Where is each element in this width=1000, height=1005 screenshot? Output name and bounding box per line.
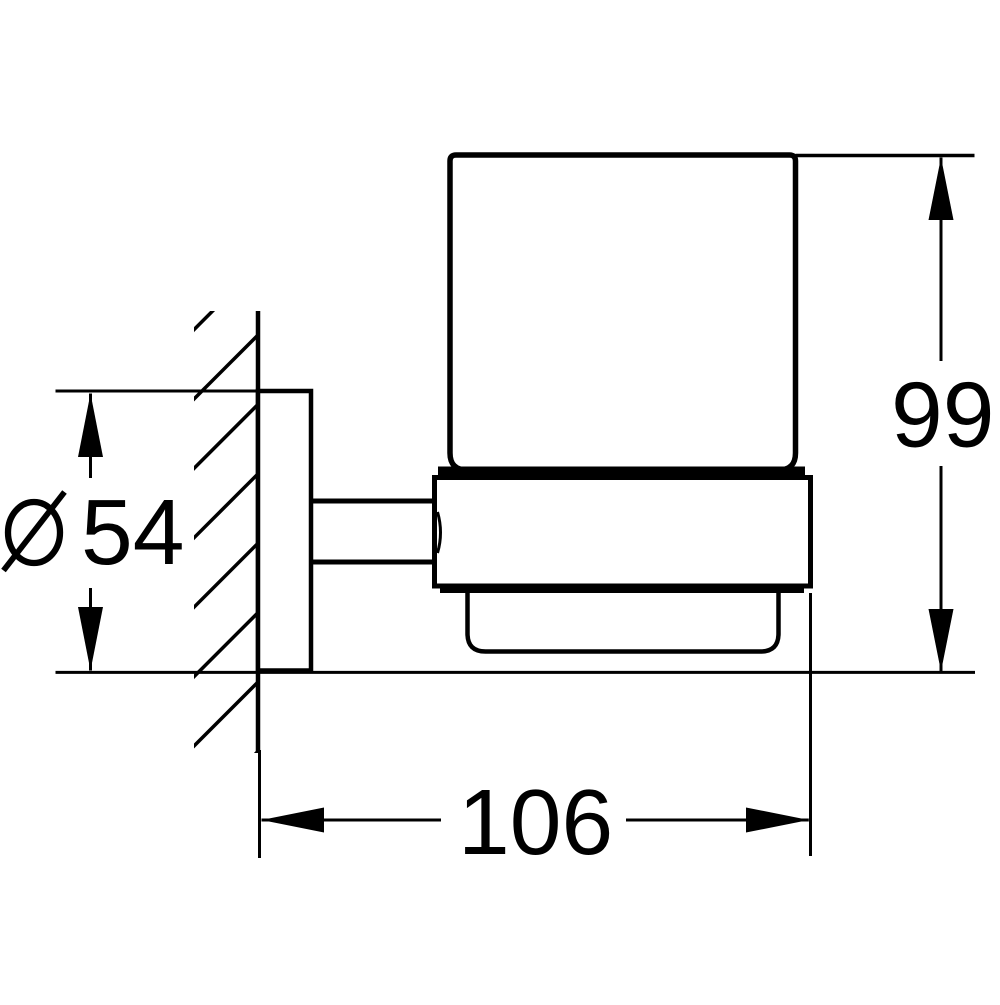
dim 99 line upper segment bbox=[940, 158, 943, 362]
dim 106 line right segment bbox=[626, 819, 809, 822]
wall hatching bbox=[188, 260, 264, 822]
dim 106 arrow right bbox=[746, 808, 809, 833]
svg-text:106: 106 bbox=[458, 770, 613, 874]
wall plate bbox=[258, 391, 311, 671]
svg-text:99: 99 bbox=[891, 363, 994, 467]
dim 54 arrow up bbox=[78, 394, 103, 458]
arm bottom line bbox=[311, 560, 434, 565]
dim 106 left extension line bbox=[258, 750, 261, 858]
wall surface line bbox=[256, 311, 261, 753]
svg-text:54: 54 bbox=[81, 480, 184, 584]
holder inner arc detail bbox=[438, 512, 441, 553]
holder rim bottom band bbox=[440, 584, 804, 594]
dim 99 arrow down bbox=[929, 609, 954, 672]
dim 54 line upper segment bbox=[89, 394, 92, 479]
dim 99 arrow up bbox=[929, 158, 954, 221]
extension line top left (plate top / dim 54) bbox=[56, 390, 312, 393]
holder ring body bbox=[435, 478, 811, 587]
bottom shared extension line bbox=[56, 671, 976, 674]
extension line top right (glass top / dim 99) bbox=[796, 154, 975, 158]
dim 54 arrow down bbox=[78, 607, 103, 671]
glass tumbler upper body bbox=[450, 155, 796, 470]
arm top line bbox=[311, 499, 434, 504]
dim 106 right extension line bbox=[809, 593, 812, 856]
dim 99 line lower segment bbox=[940, 466, 943, 672]
holder rim top band bbox=[438, 467, 805, 478]
dim 54 line lower segment bbox=[89, 588, 92, 671]
dim 54 text bbox=[4, 492, 65, 571]
glass tumbler lower part bbox=[468, 584, 779, 652]
dim 106 line left segment bbox=[262, 819, 442, 822]
dim 106 arrow left bbox=[262, 808, 325, 833]
